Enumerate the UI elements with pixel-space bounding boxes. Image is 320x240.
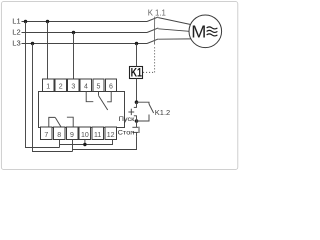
- contactor K1.1 blade phase 1: [147, 17, 158, 22]
- push button start (Пуск): [128, 102, 137, 121]
- wire L1 drop to terminal 1: [47, 22, 49, 80]
- terminal 8: [53, 127, 64, 139]
- K1 coil box: [130, 67, 143, 79]
- svg-text:9: 9: [70, 132, 74, 139]
- svg-text:M: M: [191, 22, 206, 42]
- motor M circle: [189, 15, 222, 48]
- relay box: [39, 92, 125, 128]
- junction dot start node bottom: [135, 119, 139, 123]
- wire L3 left drop: [33, 44, 73, 152]
- terminal 10: [79, 127, 90, 139]
- wire L2 drop to terminal 3: [73, 33, 75, 80]
- wire terminal 8 drop: [59, 140, 61, 148]
- terminal 9: [66, 127, 77, 139]
- wire phase 1 to motor: [158, 18, 191, 25]
- wire phase 3 to motor: [158, 38, 191, 40]
- svg-text:6: 6: [109, 83, 113, 90]
- wire phase 2 to motor: [158, 29, 189, 32]
- svg-text:11: 11: [94, 132, 101, 139]
- terminal 5: [93, 79, 104, 91]
- internal contact bottom (8-7-9): [49, 117, 73, 127]
- dashed linkage K1 to K1.1: [143, 46, 155, 73]
- svg-text:K 1.1: K 1.1: [148, 9, 166, 18]
- junction dot under terminal 10: [83, 143, 86, 146]
- terminal 7: [41, 127, 52, 139]
- svg-text:5: 5: [96, 83, 100, 90]
- svg-text:Пуск: Пуск: [119, 116, 136, 122]
- push button stop (Стоп): [132, 121, 139, 136]
- svg-text:4: 4: [84, 83, 88, 90]
- terminal 3: [68, 79, 79, 91]
- junction dot L2 to terminal 3: [72, 31, 75, 34]
- terminal 1: [43, 79, 54, 91]
- svg-text:1: 1: [46, 83, 50, 90]
- wire L3 to K1 coil: [136, 44, 138, 67]
- svg-text:Стоп: Стоп: [118, 130, 135, 137]
- wire L1 horizontal: [22, 21, 148, 23]
- junction dot L1 left: [24, 20, 27, 23]
- internal contact top (5-4-6): [86, 91, 111, 110]
- wire K1 coil to start node: [136, 79, 138, 103]
- svg-text:L2: L2: [12, 28, 20, 37]
- wire rail terminal 8 to 12: [60, 140, 113, 145]
- svg-text:8: 8: [57, 132, 61, 139]
- svg-text:7: 7: [44, 132, 48, 139]
- svg-text:L1: L1: [12, 17, 20, 26]
- junction dot L3 left: [31, 42, 34, 45]
- terminal 12: [105, 127, 116, 139]
- svg-text:L3: L3: [12, 39, 20, 48]
- motor triple tilde: [207, 27, 218, 36]
- contactor K1.1 blade phase 2: [147, 28, 158, 33]
- svg-text:K1.2: K1.2: [155, 108, 170, 117]
- svg-text:K1: K1: [131, 66, 142, 80]
- svg-text:10: 10: [81, 132, 89, 139]
- contactor K1.1 linkage bar: [153, 17, 155, 45]
- terminal 6: [105, 79, 116, 91]
- wire L3 horizontal: [22, 43, 148, 45]
- junction dot L3 to K1 coil: [135, 42, 138, 45]
- svg-text:12: 12: [107, 132, 115, 139]
- wire L2 horizontal: [22, 32, 148, 34]
- terminal 2: [55, 79, 66, 91]
- junction dot L1 to terminal 1: [46, 20, 49, 23]
- junction dot start node top: [135, 100, 139, 104]
- wire terminal 10 drop: [84, 140, 86, 145]
- contact K1.2 branch: [137, 102, 154, 121]
- svg-text:3: 3: [71, 83, 75, 90]
- terminal 4: [80, 79, 91, 91]
- wire rail terminal 9 to stop button: [73, 136, 137, 149]
- contactor K1.1 blade phase 3: [147, 39, 158, 44]
- wire L1 left drop: [26, 22, 60, 148]
- svg-text:2: 2: [59, 83, 63, 90]
- terminal 11: [92, 127, 103, 139]
- wire terminal 9 drop: [72, 140, 74, 152]
